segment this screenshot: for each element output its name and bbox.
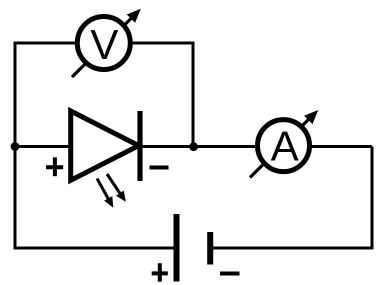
LED cathode minus label <box>150 166 169 170</box>
battery plus label <box>152 263 168 282</box>
battery BT1 negative plate <box>207 232 213 265</box>
LED D1 cathode bar <box>137 111 142 181</box>
voltmeter V1 circle <box>77 17 130 70</box>
ammeter A1 circle <box>258 120 310 172</box>
wire main horizontal <box>15 145 372 148</box>
wire voltmeter loop <box>15 43 193 147</box>
wire bottom right <box>210 147 372 249</box>
wire bottom left <box>15 147 177 249</box>
LED anode plus label <box>46 157 63 176</box>
LED light arrow 2 <box>107 174 126 202</box>
voltmeter V1 needle <box>72 9 141 77</box>
battery BT1 positive plate <box>174 214 180 282</box>
voltmeter V1 letter <box>91 30 119 59</box>
ammeter A1 needle <box>250 110 318 178</box>
LED D1 triangle <box>71 111 139 180</box>
ammeter A1 letter <box>271 132 299 161</box>
LED light arrow 1 <box>97 179 113 208</box>
battery minus label <box>220 272 240 276</box>
node right junction <box>189 142 198 151</box>
node left junction <box>11 142 20 151</box>
